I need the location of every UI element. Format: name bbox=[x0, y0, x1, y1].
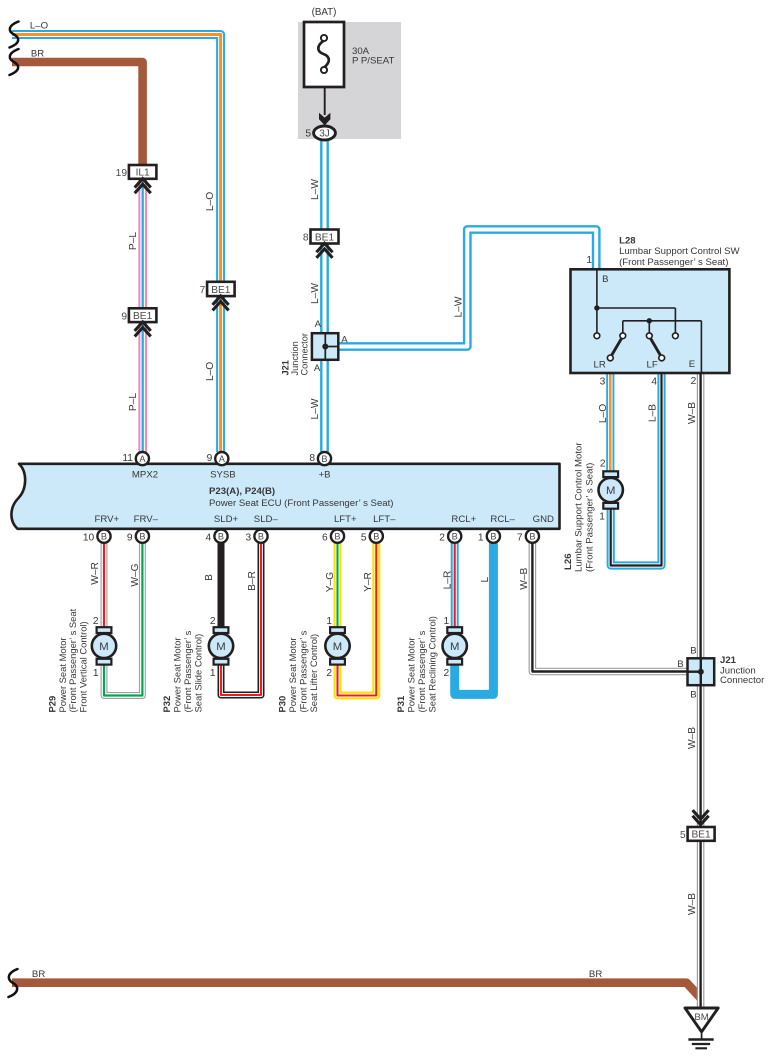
svg-text:M: M bbox=[216, 641, 225, 653]
svg-text:SLD+: SLD+ bbox=[214, 514, 239, 525]
svg-text:LFT+: LFT+ bbox=[334, 514, 357, 525]
svg-text:1: 1 bbox=[586, 255, 592, 266]
svg-text:Lumbar Support Control Motor: Lumbar Support Control Motor bbox=[574, 442, 585, 572]
svg-text:(Front Passenger’ s Seat): (Front Passenger’ s Seat) bbox=[584, 463, 595, 572]
svg-text:B: B bbox=[204, 574, 215, 581]
svg-text:Seat Lifter Control): Seat Lifter Control) bbox=[308, 634, 319, 713]
svg-text:P–L: P–L bbox=[128, 393, 139, 411]
svg-text:M: M bbox=[99, 641, 108, 653]
svg-text:P–L: P–L bbox=[128, 232, 139, 250]
svg-text:Power Seat Motor: Power Seat Motor bbox=[57, 637, 68, 712]
svg-text:MPX2: MPX2 bbox=[132, 470, 158, 481]
svg-text:B: B bbox=[334, 532, 340, 542]
svg-text:RCL+: RCL+ bbox=[451, 514, 476, 525]
svg-text:B: B bbox=[139, 532, 145, 542]
svg-text:5: 5 bbox=[680, 830, 686, 841]
svg-text:Connector: Connector bbox=[300, 333, 310, 375]
svg-text:M: M bbox=[450, 641, 459, 653]
svg-text:5: 5 bbox=[361, 533, 367, 544]
svg-text:Power Seat ECU (Front Passenge: Power Seat ECU (Front Passenger’ s Seat) bbox=[209, 498, 394, 509]
svg-text:7: 7 bbox=[517, 533, 523, 544]
svg-text:8: 8 bbox=[303, 233, 309, 244]
svg-text:W–R: W–R bbox=[90, 562, 101, 585]
svg-text:1: 1 bbox=[93, 668, 99, 679]
svg-text:1: 1 bbox=[478, 533, 484, 544]
svg-text:3J: 3J bbox=[319, 129, 330, 140]
svg-text:9: 9 bbox=[207, 453, 213, 464]
svg-text:2: 2 bbox=[600, 459, 606, 470]
svg-text:Seat Reclining Control): Seat Reclining Control) bbox=[427, 616, 438, 712]
svg-text:(BAT): (BAT) bbox=[312, 7, 337, 18]
svg-text:B: B bbox=[690, 690, 696, 701]
svg-text:19: 19 bbox=[116, 168, 128, 179]
svg-text:B: B bbox=[373, 532, 379, 542]
svg-text:E: E bbox=[689, 359, 695, 370]
svg-text:P P/SEAT: P P/SEAT bbox=[352, 56, 394, 67]
svg-text:Connector: Connector bbox=[720, 675, 765, 686]
svg-text:Front Vertical Control): Front Vertical Control) bbox=[78, 621, 89, 712]
svg-text:Y–R: Y–R bbox=[363, 572, 374, 592]
svg-text:LFT–: LFT– bbox=[373, 514, 396, 525]
svg-text:3: 3 bbox=[246, 533, 252, 544]
svg-text:M: M bbox=[606, 485, 615, 497]
svg-text:2: 2 bbox=[210, 616, 216, 627]
svg-text:Y–G: Y–G bbox=[325, 572, 336, 592]
svg-text:BR: BR bbox=[32, 969, 45, 980]
svg-text:B: B bbox=[690, 645, 696, 656]
svg-text:B: B bbox=[101, 532, 107, 542]
svg-text:3: 3 bbox=[600, 376, 606, 387]
svg-text:11: 11 bbox=[122, 453, 133, 464]
svg-text:B: B bbox=[218, 532, 224, 542]
svg-text:L–W: L–W bbox=[310, 283, 321, 304]
svg-text:Power Seat Motor: Power Seat Motor bbox=[287, 637, 298, 712]
svg-text:(Front Passenger’ s: (Front Passenger’ s bbox=[298, 630, 309, 712]
svg-text:P31: P31 bbox=[395, 696, 406, 713]
svg-text:B–R: B–R bbox=[247, 571, 258, 591]
svg-text:BR: BR bbox=[589, 969, 602, 980]
svg-text:+B: +B bbox=[319, 470, 331, 481]
svg-text:J21: J21 bbox=[281, 360, 291, 375]
svg-text:W–B: W–B bbox=[687, 893, 698, 915]
svg-text:LF: LF bbox=[646, 359, 657, 370]
svg-text:10: 10 bbox=[83, 533, 95, 544]
svg-text:1: 1 bbox=[599, 511, 605, 522]
svg-text:W–G: W–G bbox=[130, 563, 141, 586]
svg-text:BR: BR bbox=[31, 49, 44, 60]
svg-text:(Front Passenger’ s: (Front Passenger’ s bbox=[182, 630, 193, 712]
svg-text:Power Seat Motor: Power Seat Motor bbox=[406, 637, 417, 712]
svg-text:L–W: L–W bbox=[310, 398, 321, 419]
svg-text:L–O: L–O bbox=[205, 192, 216, 211]
svg-text:B: B bbox=[490, 532, 496, 542]
svg-text:L–O: L–O bbox=[205, 362, 216, 381]
svg-text:L–R: L–R bbox=[442, 571, 453, 590]
svg-text:A: A bbox=[315, 319, 322, 330]
svg-text:L–W: L–W bbox=[310, 179, 321, 200]
svg-text:FRV+: FRV+ bbox=[94, 514, 119, 525]
svg-text:L26: L26 bbox=[563, 553, 574, 570]
svg-text:1: 1 bbox=[326, 616, 332, 627]
svg-text:W–B: W–B bbox=[687, 402, 698, 424]
svg-text:2: 2 bbox=[326, 668, 332, 679]
svg-text:RCL–: RCL– bbox=[490, 514, 515, 525]
svg-text:A: A bbox=[341, 335, 348, 346]
svg-text:Lumbar Support Control SW: Lumbar Support Control SW bbox=[619, 246, 740, 257]
svg-text:5: 5 bbox=[305, 128, 311, 139]
svg-text:Seat Slide Control): Seat Slide Control) bbox=[193, 634, 204, 713]
svg-text:2: 2 bbox=[691, 376, 697, 387]
svg-text:L–O: L–O bbox=[598, 404, 609, 423]
svg-text:6: 6 bbox=[322, 533, 328, 544]
svg-text:2: 2 bbox=[93, 616, 99, 627]
svg-text:7: 7 bbox=[200, 285, 206, 296]
svg-text:9: 9 bbox=[127, 533, 133, 544]
svg-text:2: 2 bbox=[439, 533, 445, 544]
svg-text:B: B bbox=[452, 532, 458, 542]
svg-text:B: B bbox=[602, 274, 608, 285]
svg-text:1: 1 bbox=[444, 616, 450, 627]
svg-text:B: B bbox=[529, 532, 535, 542]
svg-text:Power Seat Motor: Power Seat Motor bbox=[172, 637, 183, 712]
svg-text:P23(A), P24(B): P23(A), P24(B) bbox=[209, 486, 275, 497]
svg-text:2: 2 bbox=[444, 668, 450, 679]
svg-text:(Front Passenger’ s: (Front Passenger’ s bbox=[416, 630, 427, 712]
svg-text:W–B: W–B bbox=[687, 727, 698, 749]
svg-text:A: A bbox=[219, 454, 226, 464]
svg-text:4: 4 bbox=[206, 533, 212, 544]
svg-text:4: 4 bbox=[651, 376, 657, 387]
svg-text:L28: L28 bbox=[619, 235, 636, 246]
svg-text:L–W: L–W bbox=[453, 296, 464, 317]
svg-text:LR: LR bbox=[594, 359, 606, 370]
svg-text:M: M bbox=[333, 641, 342, 653]
svg-text:GND: GND bbox=[533, 514, 554, 525]
svg-text:A: A bbox=[139, 454, 146, 464]
svg-text:P32: P32 bbox=[161, 696, 172, 713]
svg-text:SYSB: SYSB bbox=[210, 470, 236, 481]
svg-text:L–B: L–B bbox=[648, 404, 659, 422]
svg-text:B: B bbox=[677, 659, 683, 670]
svg-text:1: 1 bbox=[210, 668, 216, 679]
svg-text:L: L bbox=[480, 576, 491, 582]
svg-text:(Front Passenger’ s Seat): (Front Passenger’ s Seat) bbox=[619, 257, 728, 268]
svg-text:B: B bbox=[258, 532, 264, 542]
svg-text:BM: BM bbox=[694, 1012, 708, 1023]
svg-text:A: A bbox=[314, 363, 321, 374]
svg-text:SLD–: SLD– bbox=[254, 514, 279, 525]
svg-text:8: 8 bbox=[309, 453, 315, 464]
svg-text:FRV–: FRV– bbox=[134, 514, 159, 525]
svg-text:P30: P30 bbox=[277, 696, 288, 713]
svg-text:9: 9 bbox=[121, 312, 127, 323]
svg-text:L–O: L–O bbox=[30, 21, 48, 32]
svg-text:BE1: BE1 bbox=[691, 830, 711, 841]
svg-text:W–B: W–B bbox=[519, 567, 530, 589]
svg-text:Junction: Junction bbox=[290, 341, 300, 375]
svg-text:B: B bbox=[321, 454, 327, 464]
